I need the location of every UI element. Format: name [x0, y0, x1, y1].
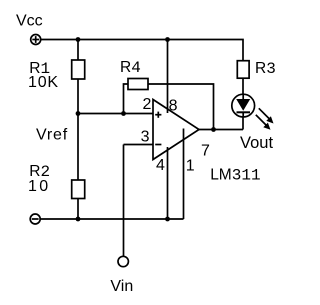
minus symbol inverting input: [155, 144, 161, 146]
svg-text:2: 2: [143, 96, 152, 113]
terminal ground: [30, 214, 40, 224]
LED arrow lower: [256, 115, 271, 130]
svg-text:Vcc: Vcc: [16, 13, 43, 30]
wire pin 1 to ground rail: [183, 129, 185, 220]
LED D1: [232, 94, 255, 117]
op-amp U1 LM311: [153, 100, 199, 160]
svg-text:3: 3: [141, 129, 150, 146]
wire pin 4 to ground rail: [167, 147, 169, 219]
wire pin 3 input: [124, 144, 153, 146]
wire Vcc to R1: [77, 40, 79, 61]
wire R3 to LED: [242, 79, 244, 95]
wire output pin 7: [199, 129, 243, 131]
junction Vref / divider: [76, 111, 81, 116]
terminal Vcc: [31, 35, 41, 45]
wire pin 8 to Vcc rail: [167, 40, 169, 114]
wire Vref to pin 2: [78, 113, 153, 115]
svg-text:Vref: Vref: [36, 126, 68, 143]
wire R4 left lead: [124, 84, 129, 114]
wire Vref to R2: [77, 114, 79, 181]
wire R1 to Vref node: [77, 79, 79, 114]
svg-text:10: 10: [28, 178, 51, 195]
svg-text:R3: R3: [255, 60, 276, 78]
junction top rail / R1: [76, 37, 81, 42]
wire LED cathode to output node: [242, 117, 244, 130]
plus symbol noninverting input: [155, 112, 161, 118]
svg-text:8: 8: [169, 97, 178, 114]
junction top rail / pin 8: [165, 37, 170, 42]
wire R2 to ground rail: [77, 199, 79, 220]
svg-text:4: 4: [156, 157, 165, 174]
resistor R2: [72, 180, 85, 199]
wire Vin to pin 3: [123, 145, 125, 257]
svg-text:Vout: Vout: [240, 134, 273, 152]
svg-text:7: 7: [201, 143, 210, 160]
resistor R4: [128, 79, 148, 90]
wire R4 right lead to output: [148, 84, 214, 130]
junction ground / pin 4: [165, 217, 170, 222]
terminal Vin: [118, 256, 128, 266]
junction Vref / R4: [121, 111, 126, 116]
junction ground / R2: [76, 217, 81, 222]
svg-text:Vin: Vin: [110, 278, 133, 295]
svg-text:10K: 10K: [28, 74, 59, 91]
wire Vcc top rail: [41, 40, 243, 61]
LED arrow upper: [259, 108, 274, 123]
svg-text:1: 1: [186, 157, 195, 174]
wire ground rail: [41, 218, 184, 220]
resistor R1: [72, 60, 85, 79]
svg-text:LM311: LM311: [210, 167, 260, 185]
junction output / R4 feedback: [211, 127, 216, 132]
resistor R3: [237, 61, 249, 78]
svg-text:R4: R4: [120, 59, 141, 77]
